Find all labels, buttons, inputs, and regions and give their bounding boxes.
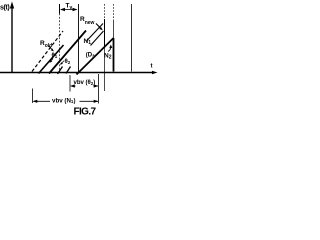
svg-text:vbv (θ2): vbv (θ2) (74, 80, 96, 86)
svg-text:N1: N1 (84, 38, 92, 46)
svg-text:θ2: θ2 (65, 59, 71, 65)
svg-text:vbv (N1): vbv (N1) (52, 97, 75, 104)
svg-text:θ1: θ1 (52, 53, 58, 59)
svg-text:t: t (151, 64, 153, 70)
svg-text:N2: N2 (104, 53, 112, 61)
svg-text:FIG.7: FIG.7 (74, 107, 97, 118)
svg-text:s(t): s(t) (0, 5, 9, 12)
svg-text:(D3: (D3 (86, 53, 95, 59)
